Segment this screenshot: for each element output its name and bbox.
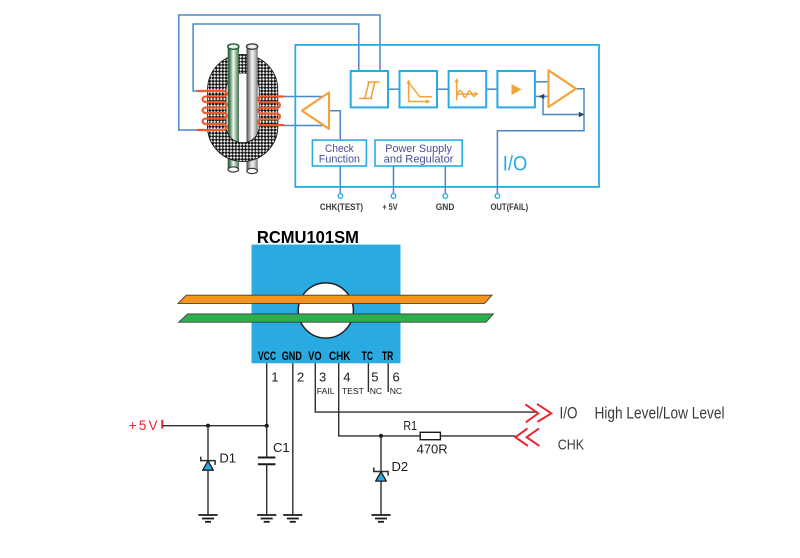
svg-text:I/O: I/O <box>560 405 578 423</box>
CT toroidal core <box>207 54 277 161</box>
arrow: feedback right <box>579 112 585 117</box>
wire D1 branch <box>207 426 209 460</box>
wire: right coil to op-amp A1 upper input <box>283 96 323 98</box>
wire C1 upper <box>266 426 268 458</box>
svg-text:4: 4 <box>343 370 350 385</box>
svg-text:D1: D1 <box>219 451 236 466</box>
pin 1 lead <box>266 363 268 425</box>
wire: A1 output to Check Function <box>329 111 340 140</box>
arrow I/O (red chevrons right) <box>525 404 551 422</box>
svg-text:CHK: CHK <box>329 349 351 363</box>
pin 5 lead <box>367 363 369 392</box>
svg-text:TC: TC <box>362 349 374 363</box>
box: Check Function <box>312 140 366 166</box>
wire: +5V stem <box>393 166 395 194</box>
RCMU101SM body <box>252 245 401 364</box>
svg-text:R1: R1 <box>403 418 417 433</box>
svg-text:CHK: CHK <box>558 436 584 453</box>
supply tick <box>161 420 163 429</box>
wire C1 to ground <box>266 464 268 515</box>
diode D1 (zener, cyan) <box>201 457 215 471</box>
wire W1: CT secondary top loop to block1 <box>193 24 359 91</box>
capacitor C1 <box>258 458 276 465</box>
main outer box <box>295 45 599 187</box>
svg-text:+5V: +5V <box>129 418 158 433</box>
svg-text:C1: C1 <box>273 440 290 455</box>
wire: right coil to op-amp A1 lower input <box>283 125 324 127</box>
wire: A2 output / feedback loop <box>497 89 584 194</box>
svg-text:6: 6 <box>393 370 400 385</box>
wire D2 branch <box>380 436 382 471</box>
svg-text:TEST: TEST <box>342 386 365 396</box>
block U4: driver <box>497 71 535 107</box>
svg-text:5: 5 <box>371 370 378 385</box>
svg-text:VO: VO <box>308 349 322 363</box>
block U3: band filter / oscillation <box>449 71 487 107</box>
svg-text:3: 3 <box>319 370 326 385</box>
svg-text:CHK(TEST): CHK(TEST) <box>320 202 363 213</box>
core front (bottom arc over conductors) <box>207 54 277 161</box>
wire: block4 to A2 upper <box>535 81 549 83</box>
pin 4 lead / wire to CHK <box>339 363 421 436</box>
wire: feedback tap <box>543 96 583 114</box>
svg-text:GND: GND <box>282 349 302 363</box>
svg-text:470R: 470R <box>417 442 448 457</box>
wire +5V rail <box>162 425 266 427</box>
primary conductor L (green) <box>228 46 239 169</box>
wire: block3-block4 <box>486 88 497 90</box>
svg-text:RCMU101SM: RCMU101SM <box>257 227 359 247</box>
primary conductor N (green bus) <box>179 314 494 322</box>
node: D2 tap <box>379 434 383 438</box>
svg-text:TR: TR <box>382 349 394 363</box>
node: VCC tap <box>265 424 269 428</box>
svg-text:High Level/Low Level: High Level/Low Level <box>595 405 725 423</box>
primary conductor N (gray) <box>247 46 258 171</box>
block U2: low-pass filter <box>400 71 438 107</box>
winding left (orange) <box>198 91 227 130</box>
wire: GND stem <box>444 166 446 194</box>
terminal OUT(FAIL) <box>495 194 500 199</box>
svg-text:2: 2 <box>297 370 304 385</box>
winding right (orange) <box>258 97 283 126</box>
svg-text:NC: NC <box>370 386 382 396</box>
svg-text:I/O: I/O <box>503 152 528 176</box>
diode D2 (zener, cyan) <box>374 468 388 482</box>
op-amp A2 (output amplifier) <box>549 70 577 107</box>
pin 6 lead <box>387 363 389 392</box>
svg-text:Function: Function <box>319 154 360 166</box>
terminal CHK(TEST) <box>338 194 343 199</box>
ground (D1) <box>198 515 217 522</box>
wire D1 to ground <box>207 470 209 515</box>
wire: block2-block3 <box>437 88 449 90</box>
op-amp A1 (input amplifier, points left) <box>302 93 329 129</box>
ground (pin2 GND) <box>283 515 302 522</box>
box: Power Supply and Regulator <box>375 140 462 166</box>
core window <box>298 283 353 338</box>
resistor R1 <box>420 432 440 439</box>
node: D1 tap <box>206 424 210 428</box>
terminal GND <box>443 194 448 199</box>
pin 3 lead / wire to I/O <box>315 363 538 412</box>
wire D2 to ground <box>380 481 382 515</box>
arrow: feedback left <box>539 94 545 99</box>
wire: block1-block2 <box>388 88 400 90</box>
svg-text:OUT(FAIL): OUT(FAIL) <box>491 202 529 213</box>
svg-text:FAIL: FAIL <box>317 386 335 396</box>
primary conductor L (orange bus) <box>178 295 492 303</box>
svg-text:D2: D2 <box>392 459 409 474</box>
wire W2: CT secondary bottom loop to block1 <box>179 15 380 130</box>
svg-text:VCC: VCC <box>258 349 276 363</box>
terminal +5V <box>391 194 396 199</box>
svg-text:+ 5V: + 5V <box>382 202 398 213</box>
svg-text:1: 1 <box>271 370 278 385</box>
svg-text:GND: GND <box>436 202 455 213</box>
pin 2 lead <box>292 363 294 515</box>
arrow CHK (red chevrons left) <box>515 428 539 446</box>
svg-text:and Regulator: and Regulator <box>384 154 454 166</box>
wire R1 to CHK arrow <box>440 435 515 437</box>
wire: CHK(TEST) stem <box>339 166 341 194</box>
ground (D2) <box>371 515 390 522</box>
ground (C1) <box>257 515 276 522</box>
svg-text:NC: NC <box>390 386 402 396</box>
block U1: hysteresis comparator <box>351 71 388 107</box>
wire: block4 to A2 lower <box>535 95 549 97</box>
